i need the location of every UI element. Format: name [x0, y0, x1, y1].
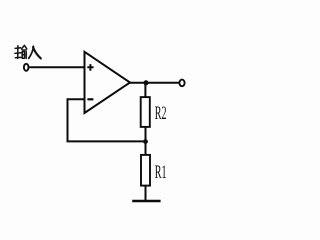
输 right part body — [22, 52, 24, 59]
resistor R2 — [141, 97, 150, 127]
feedback wire — [68, 99, 146, 141]
输 left radical — [15, 47, 20, 50]
minus input marker — [87, 98, 93, 100]
入 — [29, 46, 34, 58]
ground — [132, 200, 160, 203]
resistor R1 — [141, 155, 150, 186]
wire node to R1 — [145, 142, 147, 156]
wire R2 to node — [145, 127, 147, 142]
input label 输入 — [15, 45, 27, 58]
wire node to R2 — [144, 83, 146, 98]
output terminal — [179, 80, 184, 87]
input terminal — [24, 64, 29, 71]
node junction feedback — [143, 139, 148, 144]
wire R1 to ground — [145, 185, 147, 200]
plus input marker — [87, 64, 93, 71]
输 right part roof — [22, 45, 25, 49]
svg-text:R1: R1 — [155, 162, 167, 183]
node junction at output — [144, 80, 149, 85]
svg-text:R2: R2 — [155, 103, 167, 124]
op-amp U1 — [85, 52, 131, 113]
wire output — [129, 82, 179, 84]
wire input to op-amp — [29, 66, 84, 68]
